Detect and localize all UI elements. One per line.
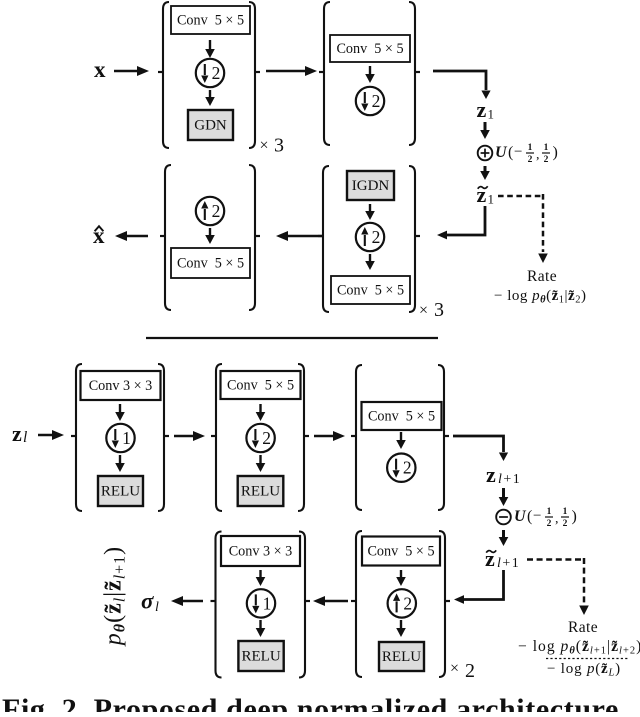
- svg-text:Conv 5 × 5: Conv 5 × 5: [337, 283, 404, 299]
- svg-text:1: 1: [563, 507, 568, 517]
- svg-text:2: 2: [528, 155, 533, 165]
- svg-text:): ): [553, 144, 558, 161]
- svg-text:z: z: [485, 546, 495, 571]
- svg-text:2: 2: [372, 227, 381, 247]
- svg-text:Rate: Rate: [527, 268, 557, 285]
- svg-text:Conv 5 × 5: Conv 5 × 5: [177, 256, 244, 272]
- svg-text:Conv 5 × 5: Conv 5 × 5: [368, 409, 435, 425]
- svg-text:1: 1: [488, 106, 495, 121]
- svg-text:l+1: l+1: [497, 556, 520, 571]
- svg-text:(: (: [527, 508, 532, 525]
- svg-text:l: l: [155, 600, 159, 615]
- svg-text:2: 2: [403, 458, 412, 478]
- svg-text:2: 2: [212, 201, 221, 221]
- svg-text:2: 2: [563, 519, 568, 529]
- svg-text:1: 1: [547, 507, 552, 517]
- svg-text:1: 1: [528, 143, 533, 153]
- svg-text:x: x: [94, 57, 106, 82]
- svg-text:Fig. 2. Proposed deep normaliz: Fig. 2. Proposed deep normalized archite…: [2, 693, 627, 712]
- svg-text:z: z: [486, 462, 496, 487]
- svg-text:Conv 5 × 5: Conv 5 × 5: [367, 544, 434, 560]
- svg-text:l: l: [23, 429, 27, 446]
- svg-text:,: ,: [536, 148, 540, 163]
- svg-text:z: z: [477, 97, 487, 122]
- svg-text:z: z: [477, 182, 487, 207]
- svg-text:2: 2: [212, 63, 221, 83]
- svg-text:3: 3: [434, 299, 444, 321]
- svg-text:U: U: [514, 508, 527, 525]
- svg-text:Rate: Rate: [568, 619, 598, 636]
- svg-text:IGDN: IGDN: [352, 178, 390, 194]
- svg-text:z: z: [12, 421, 22, 446]
- svg-text:1: 1: [488, 191, 495, 206]
- svg-text:2: 2: [372, 91, 381, 111]
- svg-text:×: ×: [450, 660, 459, 677]
- svg-text:2: 2: [262, 428, 271, 448]
- svg-text:2: 2: [547, 519, 552, 529]
- svg-text:2: 2: [544, 155, 549, 165]
- svg-text:RELU: RELU: [101, 484, 140, 500]
- svg-text:2: 2: [403, 593, 412, 613]
- svg-text:): ): [572, 508, 577, 525]
- svg-text:1: 1: [263, 593, 272, 613]
- svg-text:RELU: RELU: [382, 649, 421, 665]
- svg-text:−: −: [533, 508, 541, 524]
- svg-text:,: ,: [555, 512, 559, 527]
- svg-text:2: 2: [465, 660, 475, 682]
- svg-text:(: (: [508, 144, 513, 161]
- svg-text:Conv 5 × 5: Conv 5 × 5: [177, 13, 244, 29]
- svg-text:Conv 3 × 3: Conv 3 × 3: [229, 544, 293, 560]
- svg-text:×: ×: [260, 137, 269, 154]
- svg-text:1: 1: [544, 143, 549, 153]
- svg-text:3: 3: [274, 135, 284, 157]
- svg-text:−: −: [514, 144, 522, 160]
- svg-text:×: ×: [419, 302, 428, 319]
- svg-text:U: U: [495, 144, 508, 161]
- svg-text:RELU: RELU: [241, 484, 280, 500]
- svg-text:1: 1: [122, 428, 131, 448]
- svg-text:Conv 5 × 5: Conv 5 × 5: [227, 378, 294, 394]
- svg-text:RELU: RELU: [242, 649, 281, 665]
- svg-text:Conv 3 × 3: Conv 3 × 3: [89, 378, 153, 394]
- svg-text:GDN: GDN: [194, 118, 227, 134]
- svg-text:σ: σ: [141, 589, 154, 614]
- svg-text:Conv 5 × 5: Conv 5 × 5: [336, 41, 403, 57]
- svg-text:l+1: l+1: [498, 472, 521, 487]
